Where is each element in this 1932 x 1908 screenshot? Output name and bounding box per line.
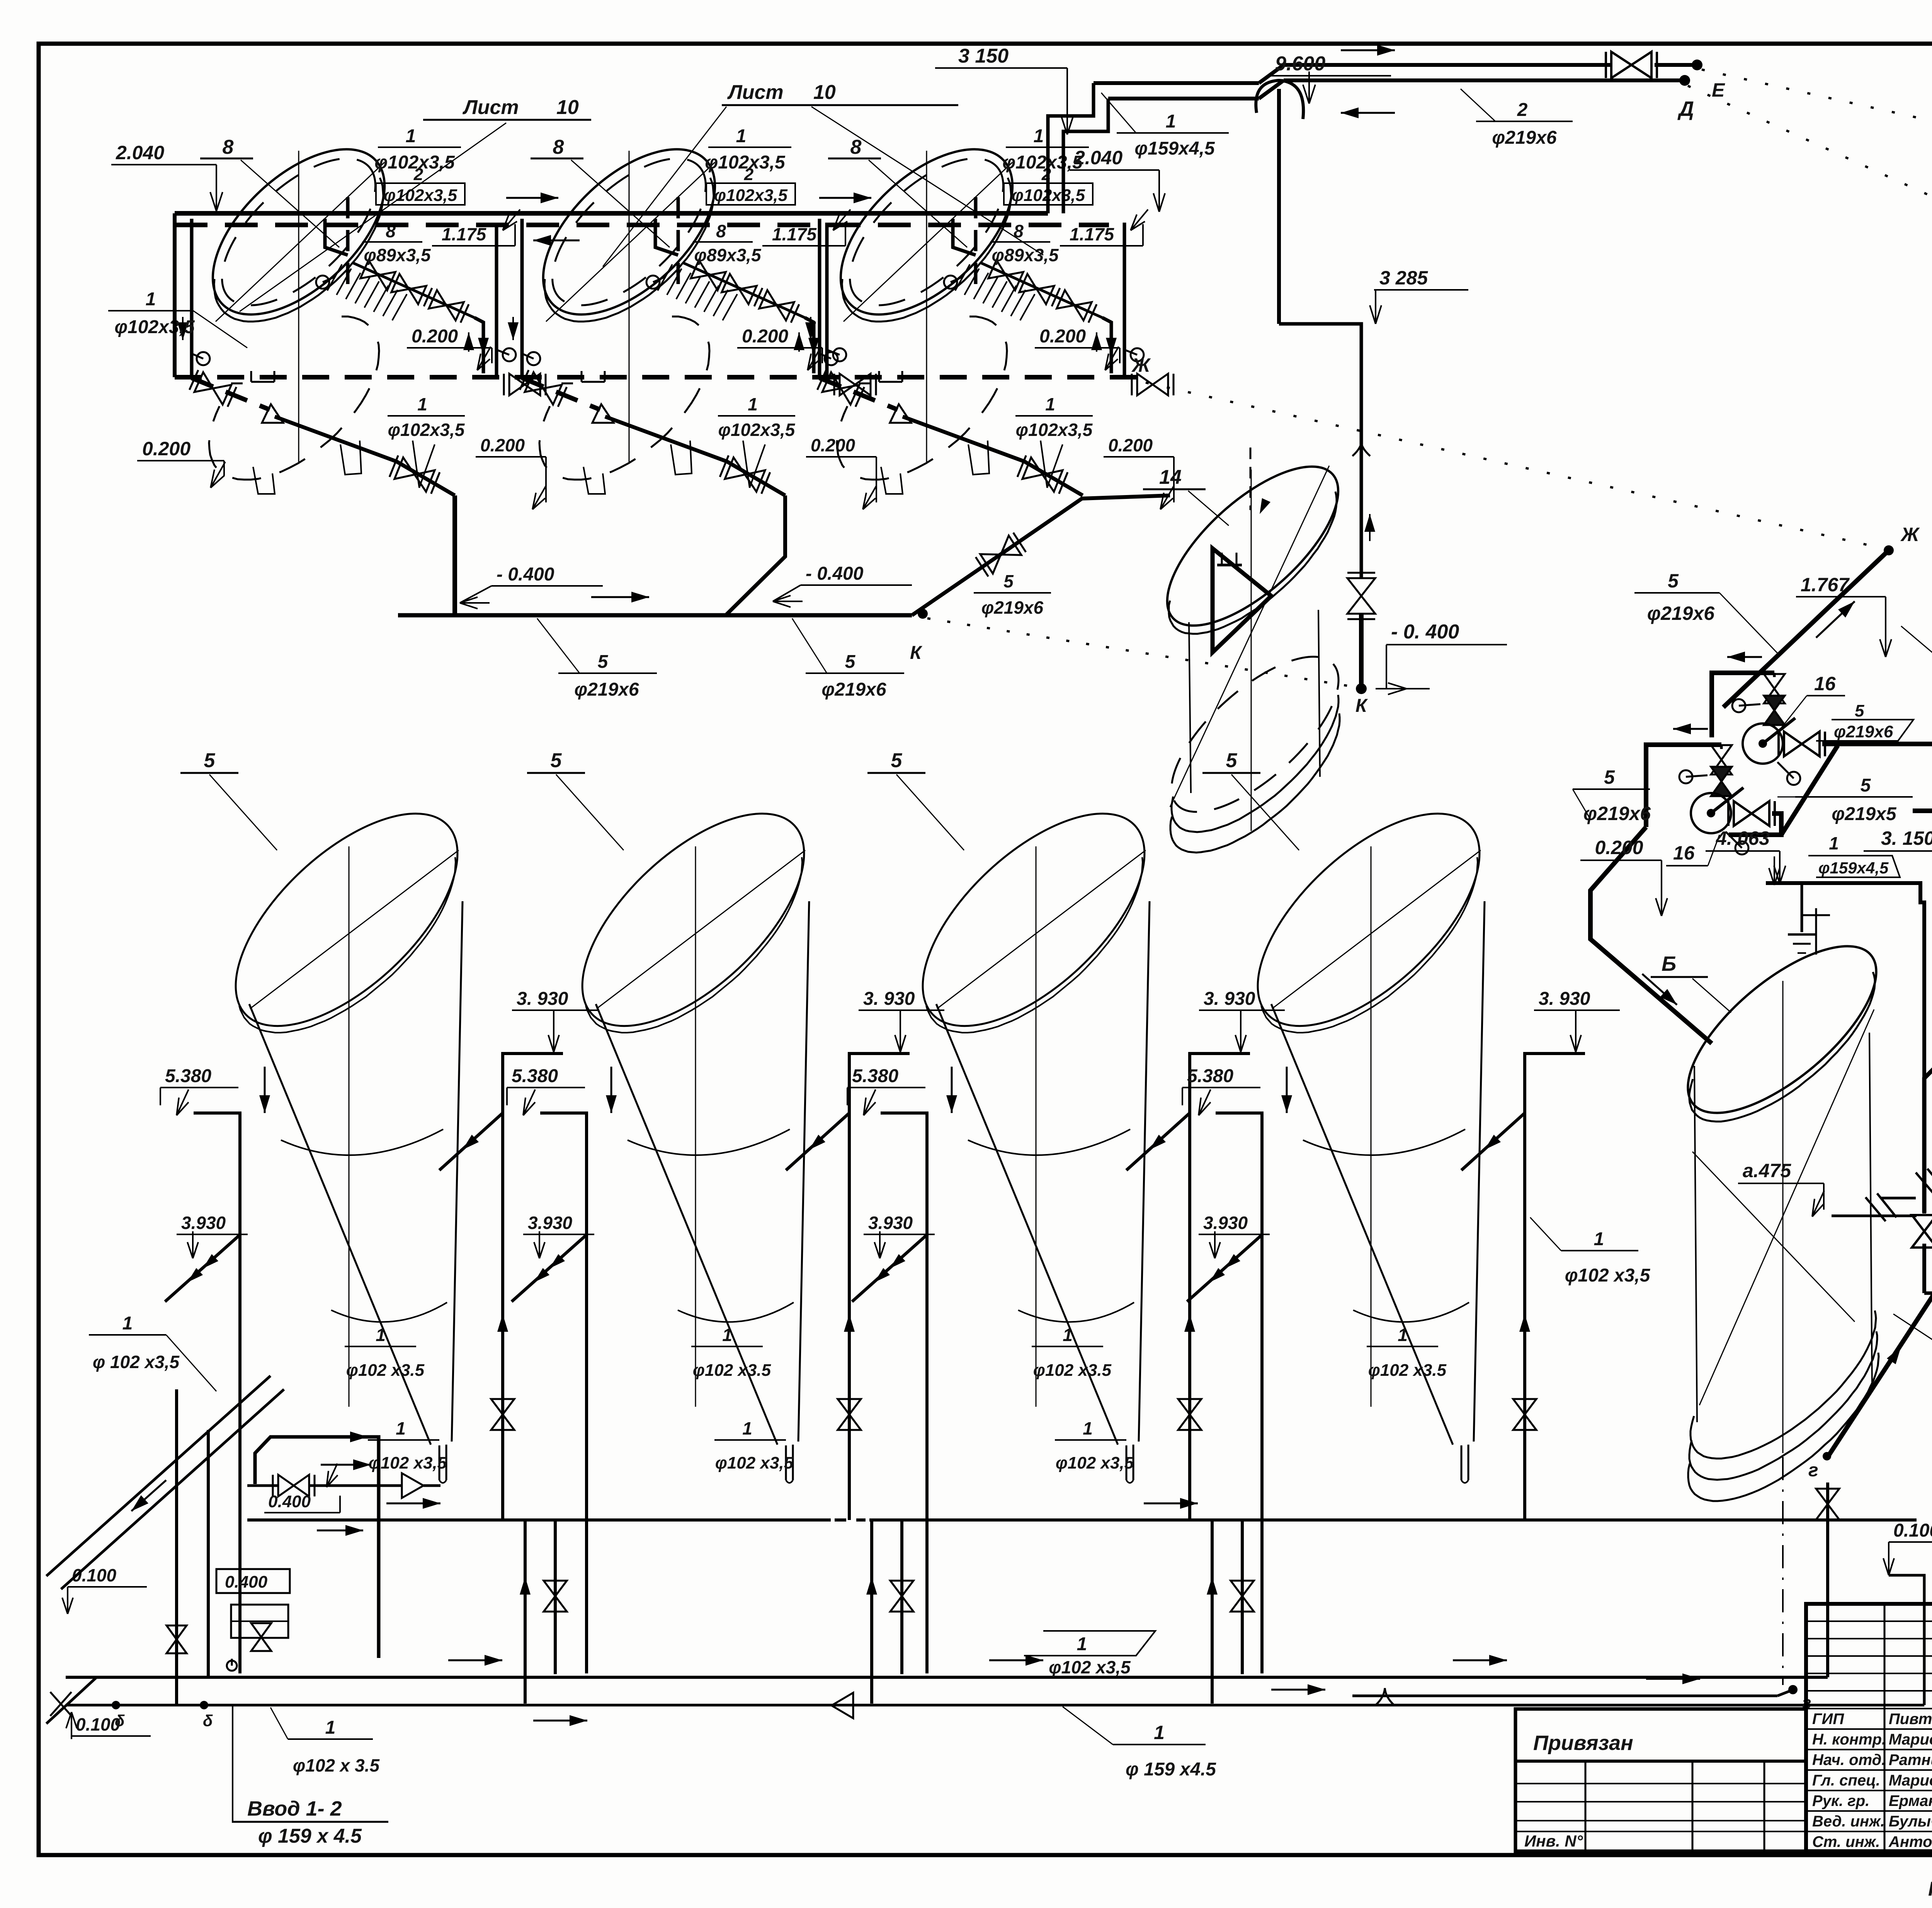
svg-text:φ219x6: φ219x6 — [1583, 803, 1651, 824]
T vent symbols on body — [879, 381, 902, 383]
left diagonal stub — [1187, 1235, 1262, 1302]
svg-text:1: 1 — [1398, 1325, 1408, 1345]
svg-text:1: 1 — [122, 1313, 133, 1334]
battery hatch marks — [658, 264, 672, 291]
tank unit pos.8 lid ellipse — [514, 119, 744, 344]
top run arrows — [1341, 49, 1395, 51]
svg-text:Пивторак: Пивторак — [1889, 1711, 1932, 1728]
svg-text:2: 2 — [744, 165, 754, 184]
0.200 sludge bus dashed — [175, 375, 1143, 380]
tank B top rim — [1689, 972, 1875, 1122]
gamma node 2 — [1788, 1685, 1798, 1694]
cyclone cone left — [249, 1004, 431, 1445]
svg-text:0.200: 0.200 — [1039, 326, 1086, 347]
dotted leader D to A — [1688, 86, 1932, 445]
hydroelevator triangle — [1213, 548, 1271, 652]
svg-text:Ж: Ж — [1900, 524, 1920, 545]
svg-text:φ102 х3.5: φ102 х3.5 — [346, 1361, 425, 1380]
tank feet — [583, 467, 605, 494]
svg-text:1: 1 — [1034, 126, 1044, 146]
feed diagonal into tank — [1126, 1113, 1190, 1170]
svg-text:5: 5 — [204, 749, 216, 772]
svg-text:0.100: 0.100 — [1893, 1520, 1932, 1541]
check cone symbol — [262, 404, 283, 423]
sludge thick diagonal to drop — [275, 417, 396, 461]
svg-text:φ219x6: φ219x6 — [821, 679, 886, 700]
collector arrow — [591, 596, 649, 598]
left diagonal feed — [46, 1376, 270, 1576]
valve under tank B — [1816, 1489, 1839, 1520]
pump 16 no.2 — [1691, 793, 1731, 833]
svg-text:φ219x6: φ219x6 — [981, 597, 1044, 618]
svg-text:1: 1 — [417, 394, 427, 414]
svg-text:0.200: 0.200 — [742, 326, 788, 347]
svg-text:φ102 х3.5: φ102 х3.5 — [1368, 1361, 1447, 1380]
tank B diagonal axis — [1699, 1009, 1874, 1405]
collector main 5 phi219x6 — [398, 613, 912, 618]
valve on right riser — [838, 1399, 861, 1430]
svg-text:0.200: 0.200 — [1108, 435, 1153, 455]
cyclone cone right — [452, 901, 463, 1442]
svg-text:0.100: 0.100 — [76, 1714, 121, 1734]
svg-text:1: 1 — [736, 126, 747, 146]
hydrocyclone rim arc — [586, 857, 802, 1033]
dotted leader E to diag — [1702, 70, 1932, 240]
right riser pipe — [1102, 318, 1111, 373]
overflow diagonal battery phi89 — [981, 263, 1102, 318]
Zh arrow — [1816, 601, 1855, 638]
svg-text:16: 16 — [1814, 673, 1836, 694]
header C main — [66, 1704, 1924, 1707]
right return pipe to bus — [483, 223, 497, 377]
right riser 3.930 — [849, 1054, 910, 1520]
svg-text:1: 1 — [376, 1325, 386, 1345]
left feed pipe — [818, 219, 821, 377]
svg-text:φ102 x3,5: φ102 x3,5 — [1056, 1454, 1134, 1472]
overflow diagonal battery phi89 — [683, 263, 805, 318]
pump 16 no.1 — [1743, 723, 1783, 764]
cyclone cone cross arc 2 — [678, 1302, 794, 1322]
open cone right — [402, 1473, 423, 1498]
title block outer box — [1806, 1604, 1932, 1851]
svg-text:φ 159 х4.5: φ 159 х4.5 — [1126, 1759, 1216, 1780]
svg-text:3.930: 3.930 — [528, 1213, 573, 1233]
check cone symbol — [592, 404, 614, 423]
cyclone cone left — [596, 1004, 777, 1445]
valve on right riser — [1178, 1399, 1201, 1430]
diagonal pipe from B bottom — [1828, 1292, 1932, 1457]
cyclone cone cross arc 1 — [628, 1129, 790, 1155]
tank body dashed shell — [837, 317, 1007, 480]
up/down flow arrows — [1096, 332, 1097, 352]
lid piping loop — [953, 219, 976, 255]
svg-text:φ219x5: φ219x5 — [1832, 804, 1897, 824]
feed arrow into 14 — [1250, 448, 1252, 510]
top run to valve — [1284, 63, 1611, 67]
top run pipe pair — [1094, 81, 1259, 85]
right riser 3.930 — [1525, 1054, 1585, 1520]
tank lid rim arc — [544, 178, 714, 322]
Zh diagonal — [1723, 550, 1889, 707]
node D dot — [1679, 75, 1690, 86]
svg-text:5: 5 — [1604, 766, 1615, 788]
cyclone cone cross arc 2 — [1353, 1302, 1469, 1322]
svg-text:1: 1 — [742, 1418, 752, 1438]
cyclone nozzle — [785, 1445, 787, 1480]
svg-text:10: 10 — [813, 81, 836, 104]
right return pipe to bus — [814, 223, 827, 377]
gap verticals with valve — [870, 1520, 873, 1704]
valve on sludge diagonal — [395, 458, 435, 492]
header arrows — [1774, 856, 1775, 885]
svg-text:Ввод 1- 2: Ввод 1- 2 — [247, 1797, 342, 1820]
header C arrows — [533, 1720, 587, 1722]
svg-text:5.380: 5.380 — [852, 1066, 898, 1086]
sludge dashed diagonal — [820, 378, 898, 410]
return bus 2.040 dashed — [175, 223, 1109, 227]
svg-text:0.200: 0.200 — [142, 438, 190, 460]
hydrocyclone pos.5 top ellipse — [887, 777, 1180, 1063]
svg-text:1: 1 — [1829, 833, 1839, 853]
gap verticals with valve — [1211, 1520, 1214, 1704]
cyclone axis — [695, 846, 696, 1407]
K node dot — [1356, 683, 1367, 694]
svg-text:Н. контр.: Н. контр. — [1812, 1731, 1886, 1748]
valve on sludge diagonal — [1022, 458, 1063, 492]
cyclone cone right — [1474, 901, 1485, 1442]
up/down flow arrows — [798, 332, 800, 352]
drop to nozzle c1 — [423, 1484, 440, 1487]
svg-text:Антоненков: Антоненков — [1888, 1833, 1932, 1850]
overflow diagonal battery phi89 — [353, 263, 474, 318]
down arrow near riser top — [611, 1067, 612, 1113]
0.100 step right — [1888, 1575, 1889, 1677]
svg-text:0.200: 0.200 — [412, 326, 458, 347]
tank body dashed shell — [539, 317, 709, 480]
corner X mark — [50, 1692, 71, 1716]
valve on top run — [1611, 52, 1651, 78]
svg-text:1: 1 — [1166, 111, 1176, 132]
svg-text:- 0.400: - 0.400 — [497, 564, 554, 585]
up arrow on riser — [1524, 1314, 1526, 1353]
title left thin rows — [1806, 1620, 1932, 1622]
svg-text:- 0. 400: - 0. 400 — [1391, 621, 1459, 643]
svg-text:φ219x6: φ219x6 — [574, 679, 639, 700]
sludge valve on dashed line — [822, 372, 859, 405]
battery hatch marks — [327, 264, 342, 291]
vent drop to tank B — [1801, 883, 1803, 932]
cyclone cone cross arc 2 — [331, 1302, 447, 1322]
left diagonal stub — [165, 1235, 240, 1302]
svg-text:φ159x4,5: φ159x4,5 — [1818, 859, 1889, 877]
node E dot — [1692, 60, 1702, 70]
handle circle right — [1124, 350, 1137, 355]
svg-text:Лист: Лист — [462, 96, 519, 119]
T vent symbols on body — [582, 381, 605, 383]
left diag arrows — [131, 1480, 166, 1511]
cylinder 14 bottom rims — [1172, 695, 1338, 832]
cyclone cone cross arc 1 — [968, 1129, 1130, 1155]
svg-text:8: 8 — [223, 136, 234, 158]
header B arrows — [448, 1660, 502, 1661]
svg-text:φ 159 х 4.5: φ 159 х 4.5 — [258, 1825, 362, 1847]
svg-text:2.040: 2.040 — [1074, 147, 1122, 169]
sludge dashed diagonal — [192, 378, 270, 410]
cyclone axis — [1036, 846, 1037, 1407]
break symbol on riser — [1352, 443, 1370, 456]
battery valve 2 — [722, 274, 757, 304]
tank lid rim arc — [842, 178, 1011, 322]
lid handle circle — [653, 277, 665, 282]
cylinder 14 axis vertical — [1251, 470, 1252, 831]
K node left dot — [918, 609, 928, 619]
svg-text:φ 102 х3,5: φ 102 х3,5 — [93, 1352, 180, 1372]
svg-text:Рук. гр.: Рук. гр. — [1812, 1792, 1869, 1809]
lid piping loop — [655, 219, 678, 255]
svg-text:δ: δ — [203, 1712, 213, 1730]
privyazan columns — [1585, 1761, 1587, 1851]
sludge thick diagonal to drop — [903, 417, 1024, 461]
svg-text:Ермакова: Ермакова — [1889, 1792, 1932, 1809]
svg-text:г: г — [1808, 1460, 1818, 1481]
battery valve 3 — [429, 290, 464, 320]
collector diagonal to unit3 — [912, 495, 1170, 615]
svg-text:16: 16 — [1673, 842, 1695, 864]
svg-text:Ж: Ж — [1131, 354, 1151, 376]
svg-text:Д: Д — [1677, 97, 1694, 121]
svg-text:φ102 х3,5: φ102 х3,5 — [1049, 1657, 1131, 1677]
svg-text:5: 5 — [1861, 775, 1871, 796]
svg-text:Марионков: Марионков — [1889, 1772, 1932, 1789]
up/down flow arrows — [468, 332, 469, 352]
bottom-left corner diagonal — [46, 1677, 97, 1724]
header A 3.930 — [247, 1518, 831, 1522]
battery valve 2 — [1019, 274, 1054, 304]
svg-text:φ102 х 3.5: φ102 х 3.5 — [293, 1755, 380, 1775]
open triangle on header C — [832, 1693, 853, 1718]
svg-text:3. 930: 3. 930 — [517, 989, 568, 1009]
tank B top ellipse — [1662, 918, 1902, 1142]
header above tank B — [1766, 883, 1920, 904]
svg-text:Инв. N°: Инв. N° — [1524, 1832, 1583, 1850]
valve on sludge diagonal — [725, 458, 765, 492]
down arrow near riser top — [1286, 1067, 1288, 1113]
svg-text:3 150: 3 150 — [958, 45, 1009, 67]
svg-text:4. 063: 4. 063 — [1716, 827, 1770, 849]
cyclone nozzle — [439, 1445, 440, 1480]
svg-text:Копировал: Коннова: Копировал: Коннова — [1928, 1878, 1932, 1900]
svg-text:0.400: 0.400 — [225, 1573, 268, 1591]
battery valve 3 — [759, 290, 794, 320]
feed diagonal into tank — [786, 1113, 849, 1170]
riser from bus to top run — [1048, 83, 1094, 213]
svg-text:5: 5 — [1003, 571, 1014, 591]
cyclone cone cross arc 1 — [1303, 1129, 1465, 1155]
header A arrows — [386, 1503, 440, 1505]
cyclone cone left — [936, 1004, 1118, 1445]
node dots bottom left — [112, 1701, 120, 1709]
tank feet — [881, 467, 903, 494]
valve on riser B — [1912, 1215, 1932, 1248]
up arrow on riser — [1189, 1314, 1190, 1353]
cylinder 14 lower dashed ellipse — [1148, 631, 1363, 837]
tank feet — [253, 467, 275, 494]
riser 9.600 vertical — [1277, 89, 1281, 324]
svg-text:1: 1 — [1154, 1722, 1165, 1743]
pump cluster upper pipe — [1712, 673, 1774, 737]
svg-text:φ102x3,5: φ102x3,5 — [114, 317, 195, 337]
cyclone diagonal axis — [250, 850, 459, 1009]
tank body dashed shell — [209, 317, 379, 480]
right riser pipe — [474, 318, 483, 373]
svg-text:0.400: 0.400 — [268, 1492, 311, 1511]
svg-text:5: 5 — [598, 652, 609, 672]
cyclone diagonal axis — [597, 850, 805, 1009]
drain handle circle — [522, 354, 534, 359]
battery valve 3 — [1057, 290, 1092, 320]
lid handle circle — [951, 277, 962, 282]
svg-text:φ102x3,5: φ102x3,5 — [388, 420, 465, 440]
hydrocyclone pos.5 top ellipse — [200, 777, 493, 1063]
break mark bottom pipe — [1376, 1688, 1394, 1705]
station pipe to drop — [363, 1484, 402, 1487]
svg-text:φ102 х3,5: φ102 х3,5 — [1565, 1265, 1651, 1286]
svg-text:φ219x6: φ219x6 — [1834, 722, 1893, 741]
svg-text:3.930: 3.930 — [181, 1213, 226, 1233]
svg-text:3. 930: 3. 930 — [1204, 989, 1255, 1009]
pump1 discharge pipe — [1822, 742, 1932, 746]
sludge valve on dashed line — [194, 372, 231, 405]
tank lid inner dashed ellipse — [197, 133, 400, 331]
pump station vertical 2 — [207, 1430, 210, 1677]
svg-text:1: 1 — [396, 1418, 406, 1438]
privyazan rows — [1515, 1783, 1806, 1784]
svg-text:1: 1 — [1063, 1325, 1073, 1345]
suction stub pumps7 — [1881, 1197, 1916, 1200]
tank lid rim arc — [214, 178, 383, 322]
vent symbol tank B — [1788, 933, 1816, 936]
svg-text:8: 8 — [553, 136, 564, 158]
check cone symbol — [890, 404, 911, 423]
station lower arrows — [317, 1530, 363, 1532]
svg-text:9.600: 9.600 — [1275, 53, 1325, 75]
supply bus arrows — [506, 197, 558, 199]
pump station loop — [255, 1437, 379, 1658]
svg-text:1.767: 1.767 — [1801, 574, 1850, 596]
svg-text:φ219x6: φ219x6 — [1492, 128, 1557, 148]
up arrow on riser — [849, 1314, 850, 1353]
valve stack pump1 — [1773, 673, 1776, 677]
svg-text:φ219x6: φ219x6 — [1647, 603, 1715, 624]
svg-text:1: 1 — [1045, 394, 1055, 414]
svg-text:φ159x4,5: φ159x4,5 — [1134, 138, 1215, 159]
dotted leader Zh to Zh — [1146, 383, 1885, 549]
right riser pipe — [805, 318, 814, 373]
drain handle circle — [192, 354, 203, 359]
svg-text:К: К — [1355, 696, 1368, 716]
svg-text:Вед. инж.: Вед. инж. — [1812, 1813, 1885, 1830]
svg-text:8: 8 — [850, 136, 862, 158]
cyclone diagonal axis — [937, 850, 1146, 1009]
left diagonal stub — [512, 1235, 587, 1302]
drop pipe corner — [396, 461, 455, 495]
svg-text:Б: Б — [1662, 952, 1676, 975]
valve on right riser — [1513, 1399, 1536, 1430]
svg-text:Булычева: Булычева — [1889, 1813, 1932, 1830]
break valve diag — [1866, 1197, 1886, 1221]
svg-text:3 285: 3 285 — [1379, 267, 1428, 289]
tank lid inner dashed ellipse — [825, 133, 1028, 331]
equipment box — [231, 1605, 288, 1638]
svg-text:5: 5 — [845, 652, 856, 672]
label 5 phi219x6 c3 parallelogram — [1816, 720, 1913, 741]
cylinder 14 diagonal axis — [1170, 466, 1329, 807]
check valves diagonal pumps7 — [1916, 1173, 1932, 1198]
title name rows — [1806, 1708, 1932, 1709]
cyclone cone right — [1139, 901, 1150, 1442]
svg-text:φ102x3,5: φ102x3,5 — [1016, 420, 1093, 440]
svg-text:Ст. инж.: Ст. инж. — [1812, 1833, 1880, 1850]
right return pipe to bus — [1111, 223, 1124, 377]
tank diagonal axis — [844, 162, 1012, 322]
left feed pipe — [190, 219, 194, 377]
dashed bus lower phi102x3.5 — [1913, 808, 1932, 813]
svg-text:5: 5 — [891, 749, 903, 772]
svg-text:10: 10 — [556, 96, 579, 119]
arrow on B diagonal — [1882, 1346, 1901, 1376]
tank B axis — [1782, 981, 1784, 1453]
svg-text:Ратников: Ратников — [1889, 1751, 1932, 1768]
up arrow on riser — [502, 1314, 503, 1353]
bus valve on 0.200 line — [509, 374, 540, 395]
svg-text:φ102x3,5: φ102x3,5 — [718, 420, 796, 440]
svg-text:Е: Е — [1712, 79, 1725, 101]
bottom long pipe to title — [1352, 1695, 1777, 1697]
tank B lower rims — [1690, 1311, 1876, 1459]
svg-text:Привязан: Привязан — [1533, 1731, 1633, 1755]
riser 9.600 hook — [1256, 80, 1303, 119]
svg-text:14: 14 — [1159, 466, 1182, 488]
vent on tank B top — [1815, 908, 1817, 955]
svg-text:К: К — [910, 643, 923, 663]
drop pipe corner — [727, 461, 785, 495]
station valve v1 — [167, 1625, 187, 1653]
pump2 discharge pipe — [1729, 814, 1781, 835]
supply bus 2.040 solid — [175, 211, 1048, 216]
svg-text:φ102 х3.5: φ102 х3.5 — [1033, 1361, 1112, 1380]
sludge valve on dashed line — [525, 372, 562, 405]
cluster mid pipe — [1646, 745, 1721, 827]
svg-text:5: 5 — [1226, 749, 1238, 772]
title left col v-lines — [1884, 1604, 1886, 1851]
cylinder 14 sides — [1189, 622, 1191, 793]
cyclone cone cross arc 2 — [1018, 1302, 1134, 1322]
tank diagonal axis — [546, 162, 715, 322]
left riser 5.380 — [540, 1113, 587, 1673]
svg-text:Нач. отд.: Нач. отд. — [1812, 1751, 1886, 1768]
privyazan table — [1515, 1709, 1806, 1851]
svg-text:φ89x3,5: φ89x3,5 — [694, 245, 761, 265]
left diagonal stub — [852, 1235, 927, 1302]
svg-text:5: 5 — [1668, 570, 1679, 592]
pipe B side to riser — [1832, 1215, 1917, 1217]
svg-text:2: 2 — [413, 165, 423, 184]
corner to 0.100 — [1924, 1292, 1932, 1295]
svg-text:0.200: 0.200 — [1595, 837, 1643, 858]
hydrocyclone rim arc — [1261, 857, 1478, 1033]
top run jog — [1259, 65, 1284, 83]
svg-text:3. 930: 3. 930 — [1539, 989, 1590, 1009]
